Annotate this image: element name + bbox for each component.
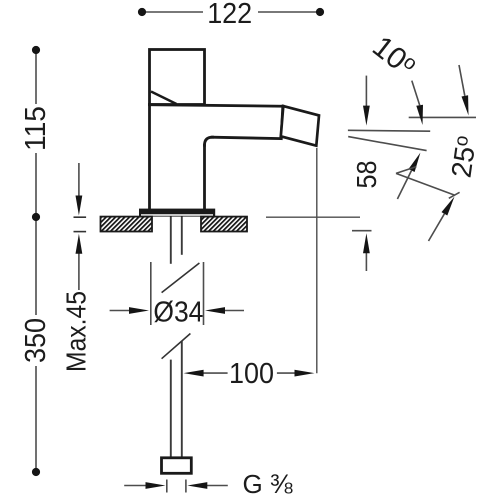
svg-text:Ø34: Ø34 <box>153 297 203 329</box>
handle lever diagonal <box>151 92 177 105</box>
base flange <box>139 209 215 217</box>
svg-text:58: 58 <box>351 161 382 189</box>
faucet body and spout outline <box>150 105 283 210</box>
dimension 122 end dots <box>138 8 324 16</box>
countertop deck hatched left block <box>101 217 153 232</box>
dimension 122 line <box>142 11 320 13</box>
reference line A <box>348 129 430 132</box>
faucet handle square <box>150 50 205 105</box>
svg-text:G ⅜: G ⅜ <box>243 469 293 499</box>
supply pipe shank right line <box>181 217 183 458</box>
G3/8 end fitting <box>162 458 192 474</box>
dimension 115/350 line <box>35 50 37 472</box>
dimension Max.45 arrows <box>78 163 80 290</box>
svg-text:350: 350 <box>20 318 52 363</box>
arrow onto horizontal reference <box>459 65 465 96</box>
countertop deck hatched right block <box>201 217 247 232</box>
aerator tilted square <box>281 106 319 146</box>
svg-text:122: 122 <box>207 0 252 30</box>
dimension G3/8 <box>124 480 228 493</box>
dimension 58 down arrow <box>365 76 367 271</box>
Max.45 tick marks <box>74 217 87 231</box>
pipe break diagonal upper <box>162 263 200 293</box>
dimension O34 arrows <box>110 310 244 312</box>
line C 25 deg <box>396 173 454 195</box>
tick at 58/25 vertex <box>396 167 416 174</box>
arrow to line B end <box>397 171 411 200</box>
dimension 58 bottom tick <box>352 230 372 232</box>
arrow to line C end <box>429 214 445 241</box>
horizontal reference line (10 deg group) <box>409 116 476 118</box>
deck reference line extension right <box>266 216 360 218</box>
leader arrow from 10deg label <box>412 81 420 106</box>
jet vertical extension line <box>316 148 318 373</box>
supply pipe shank left line <box>170 217 172 458</box>
dimension 100 <box>203 372 295 374</box>
svg-text:100: 100 <box>229 358 274 390</box>
tilted line B 10 deg <box>348 137 426 151</box>
dimension dots 115/350 <box>32 46 40 476</box>
svg-text:115: 115 <box>20 106 52 151</box>
dimension O34 extension ticks <box>151 262 204 325</box>
pipe break diagonal lower <box>162 334 191 359</box>
tick at line C end <box>449 192 460 198</box>
svg-text:Max.45: Max.45 <box>61 291 92 372</box>
